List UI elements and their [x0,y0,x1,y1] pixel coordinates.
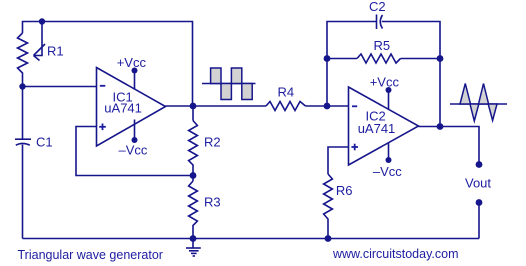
svg-text:R3: R3 [204,194,221,209]
svg-text:C1: C1 [36,135,53,150]
wire C1 bottom to ground rail [22,145,24,239]
node E R2/R3 junction dot [190,172,197,179]
op-amp IC2 triangle [349,87,419,165]
node J output junction dot [437,123,444,130]
svg-text:R6: R6 [336,183,353,198]
svg-text:uA741: uA741 [358,121,396,136]
resistor R5 [357,54,401,63]
node D IC2 inverting junction dot [324,103,331,110]
label R3 [204,194,221,209]
svg-text:C2: C2 [369,0,386,14]
wire top-left feedback from IC1 output to R1 top [23,22,193,107]
op-amp IC2 plus sign [351,144,358,151]
svg-text:–Vcc: –Vcc [373,164,402,179]
svg-text:Vout: Vout [465,176,491,191]
label Vout [465,176,491,191]
wire R3 top [192,176,194,182]
svg-text:–Vcc: –Vcc [119,142,148,157]
label R1 [47,44,64,59]
node A junction dot on top wire [39,18,45,24]
wire IC2 +Vcc stem [386,87,392,110]
caption www.circuitstoday.com [332,247,459,261]
label R5 [374,38,391,53]
resistor R3 [189,181,198,239]
label +Vcc of IC2 [370,74,400,89]
op-amp IC1 plus sign [99,124,106,131]
node C IC1 output junction dot [190,103,197,110]
label C1 [36,135,53,150]
label IC2 [366,109,386,124]
label R6 [336,183,353,198]
svg-text:+Vcc: +Vcc [117,55,147,70]
svg-text:R2: R2 [204,135,221,150]
resistor R1 [18,33,28,87]
svg-text:www.circuitstoday.com: www.circuitstoday.com [332,247,459,261]
label R2 [204,135,221,150]
node I R6 bottom junction dot [325,235,332,242]
wire IC1 +Vcc stem [132,68,138,90]
op-amp IC2 minus sign [352,105,357,107]
wire IC2 noninverting input to R6 [328,147,349,174]
node B junction dot at R1/C1/input [19,83,25,89]
svg-text:+Vcc: +Vcc [370,74,400,89]
wire IC1 -Vcc stem [132,120,138,144]
wire bottom rail [23,238,480,240]
node K Vout upper terminal dot [476,161,483,168]
wire IC2 output to Vout [419,127,480,165]
label -Vcc of IC1 [119,142,148,157]
square wave symbol at IC1 output [202,68,256,100]
svg-text:uA741: uA741 [104,100,142,115]
capacitor C2 [377,15,383,30]
wire IC1 noninverting input feedback [76,127,193,176]
label -Vcc of IC2 [373,164,402,179]
resistor R6 [324,174,333,239]
wire R5 right [401,58,441,60]
wire Vout lower to bottom rail [478,203,480,239]
wire node B down to C1 [22,87,24,140]
ground [186,239,201,257]
caption Triangular wave generator [18,248,163,262]
resistor R4 [266,102,306,111]
wire R5 left [327,58,357,60]
node L Vout lower terminal dot [476,199,483,206]
op-amp IC1 triangle [97,68,166,147]
wire R4 to IC2 inverting input [306,105,349,107]
resistor R2 [189,121,198,176]
node H R5 right junction dot [437,55,444,62]
wire IC2 inverting node up to C2/R5 [327,22,377,107]
label C2 [369,0,386,14]
wire IC2 -Vcc stem [386,143,392,163]
svg-text:R5: R5 [374,38,391,53]
label IC1 [113,90,133,105]
wire IC1 output to R4 [166,105,267,107]
capacitor C1 [15,139,31,145]
label R4 [278,84,295,99]
label uA741 of IC2 [358,121,396,136]
triangular wave symbol at Vout [450,84,507,122]
op-amp IC1 minus sign [100,85,106,87]
label +Vcc of IC1 [117,55,147,70]
wire C2 right to right rail [382,22,440,127]
wire R1 bottom to IC1 inverting input [23,86,97,88]
svg-text:R4: R4 [278,84,295,99]
node F ground junction dot [190,235,197,242]
node G R5 left junction dot [324,55,331,62]
label uA741 of IC1 [104,100,142,115]
wire R2 top [192,106,194,121]
svg-text:R1: R1 [47,44,64,59]
R1 wiper arrow [34,22,46,61]
svg-text:Triangular wave generator: Triangular wave generator [18,248,163,262]
